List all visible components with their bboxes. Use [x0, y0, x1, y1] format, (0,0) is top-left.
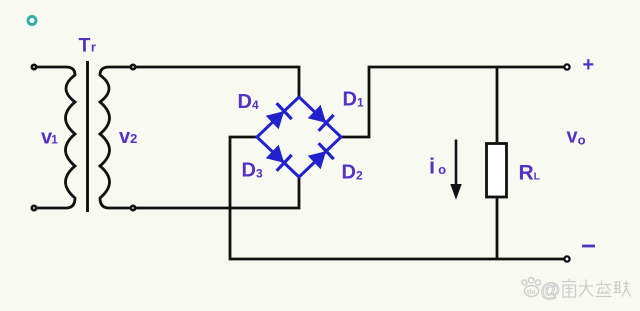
- wire primary bottom: [34, 207, 66, 210]
- diode D1: [309, 106, 334, 131]
- decorative teal dot icon: [28, 17, 36, 25]
- terminal primary top: [32, 65, 36, 69]
- watermark character da: [579, 280, 594, 297]
- wire secondary bottom to bridge bottom node: [109, 177, 299, 208]
- bridge diamond: [257, 97, 341, 177]
- resistor RL body: [487, 144, 507, 198]
- resistor RL branch wire bottom: [496, 198, 499, 260]
- diode D2: [309, 143, 334, 168]
- svg-text:du: du: [527, 289, 536, 296]
- resistor RL branch wire top: [496, 67, 499, 144]
- label minus: [582, 245, 595, 248]
- svg-text:@: @: [541, 280, 561, 302]
- terminal primary bottom: [32, 206, 36, 210]
- transformer primary winding: [66, 67, 76, 208]
- svg-text:+: +: [583, 54, 595, 76]
- wire primary top: [34, 66, 66, 69]
- terminal output minus: [564, 256, 569, 261]
- transformer secondary winding: [100, 67, 110, 208]
- watermark character nan: [562, 279, 576, 298]
- diode D4: [267, 103, 292, 128]
- terminal secondary bottom: [131, 206, 135, 210]
- terminal output plus: [564, 64, 569, 69]
- transformer core: [86, 61, 89, 212]
- watermark character lian: [614, 281, 631, 297]
- watermark paw icon: [522, 278, 541, 297]
- terminal secondary top: [131, 65, 135, 69]
- current io arrow: [451, 140, 461, 199]
- wire secondary top to bridge: [109, 67, 299, 97]
- watermark character sheng: [596, 281, 612, 297]
- wire bridge right node to plus rail: [341, 67, 567, 137]
- diode D3: [267, 146, 292, 171]
- wire bridge left node to bottom rail: [230, 137, 567, 259]
